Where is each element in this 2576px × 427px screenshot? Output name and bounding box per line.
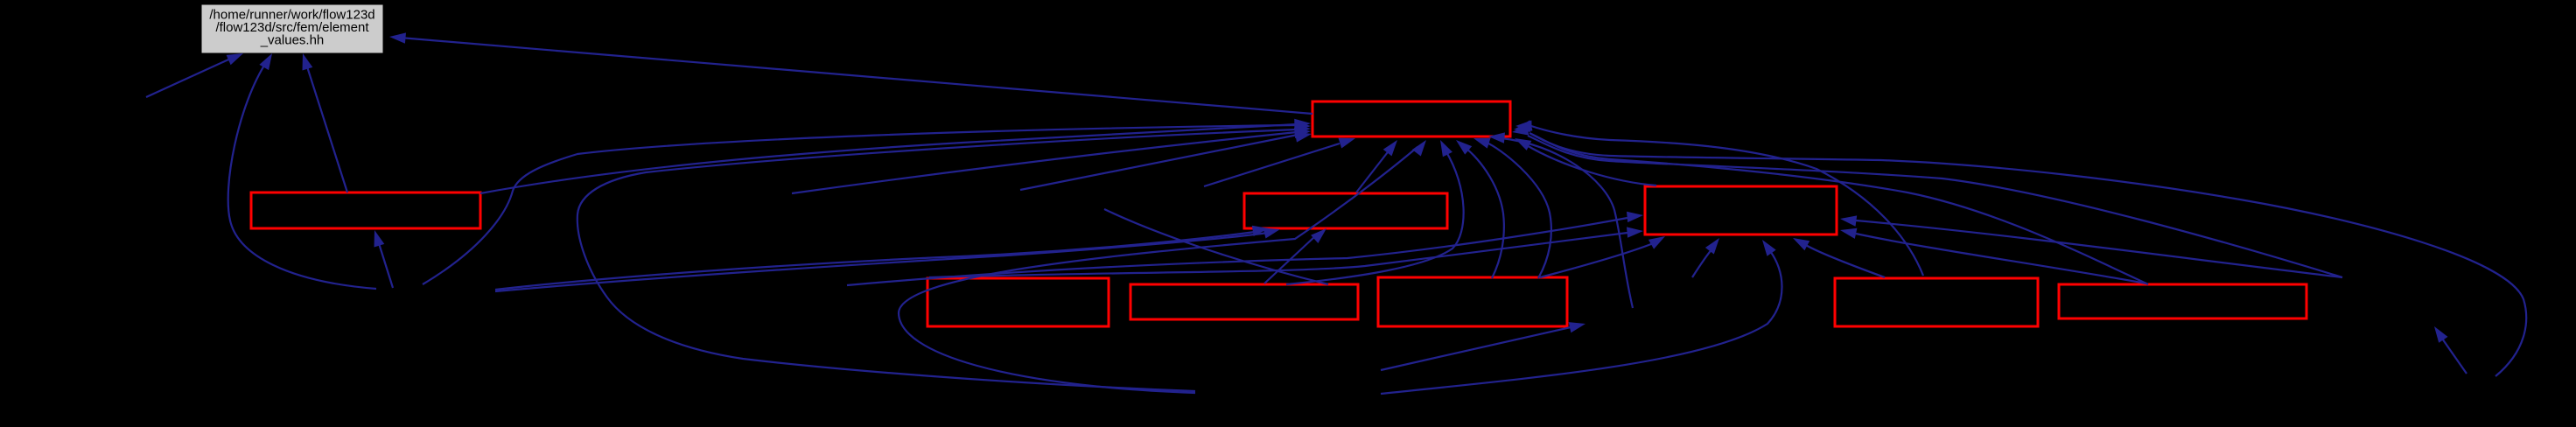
edge: node X top -> node B bottom b6 (tall curve) [1488,132,1633,308]
edge: node R4 -> node B right (giant right loop r1) [1514,122,2526,376]
svg-text:_values.hh: _values.hh [260,33,325,48]
edge: node R4 -> node J bottom [2434,326,2467,374]
edge: node E top-left -> node D left e2 [929,227,1643,277]
node I (row3, red) [2059,284,2306,318]
edge: node X top -> node D bottom d2 [1692,238,1719,277]
edge: node L -> main (S-curve, arrow at main bottom) [228,53,376,289]
node C (row2 center, red) [1244,193,1447,228]
edge: node F top -> node B bottom b3 (right bulge curve) [1286,140,1464,284]
node G (row3, red) [1378,277,1567,326]
node A (row2 left, red) [251,192,480,228]
edge: node I top -> node B right r3 [1515,120,2148,284]
node D (row2 right, red) [1645,186,1837,234]
edge: node L top -> node B left (curved) [423,121,1311,284]
edge: node D top-left corner <-> node B bottom-right corner [1515,138,1656,185]
edge: row2 hidden node -> node B left [792,128,1311,193]
node H (row3, red) [1835,278,2038,326]
edge: node F top -> row2 hidden node (stroke) [1104,209,1328,284]
edge: node K right -> node X (arrow at X bottom-left) [1381,322,1585,370]
edge: node K -> node B bottom (big center sweep) [899,140,1426,393]
edge: row2 hidden node -> node B bottom b1 [1204,138,1355,186]
edge: node G top -> node B bottom b5 (bulge curve) [1473,138,1551,278]
edge: node J top -> node B right r2 [1512,124,2342,277]
edge: node I top -> node D right d5 [1840,228,2146,283]
node F (row3, red) [1130,284,1358,319]
edge: hidden row3 node -> node D left e1 [847,212,1643,285]
node main: /home/runner/work/flow123d/flow123d/src/fem/element_values.hh [202,5,382,52]
node B (row2 top-center, red) [1312,101,1510,136]
edge: node A -> main (arrow at main bottom) [303,53,348,192]
edge: node G top -> node D bottom d1 [1540,236,1665,277]
edge: node H top -> node B right r4 [1515,121,1923,276]
edge: node B -> main (long line, arrow at main right edge) [389,32,1312,114]
edge: node C top -> node B bottom b2 [1356,140,1397,192]
edge: far-left node -> main (arrow at main bottom-left) [146,53,243,97]
edge: node J top -> node D right d6 [1840,215,2342,277]
edge: hidden node -> node C bottom-left c2 [495,228,1280,292]
edge: node H top -> node D bottom d4 [1793,238,1885,277]
edge: node F top -> node C bottom c3 [1264,228,1326,283]
edge: node A right corner -> node B left f1 [480,119,1311,193]
node E (row3, red) [927,278,1109,326]
edge: node G top -> node B bottom b4 (bulge curve) [1456,140,1504,278]
edge: node L right -> node C bottom-left c1 [495,226,1269,290]
edge: row2 hidden node 2 -> node B left [1020,131,1312,190]
edge: node K -> node B left (big left loop) [577,124,1311,391]
edge: node K -> node D bottom d3 (long bottom curve) [1381,240,1782,394]
edge: node L -> node A (arrow at A bottom) [374,230,394,288]
